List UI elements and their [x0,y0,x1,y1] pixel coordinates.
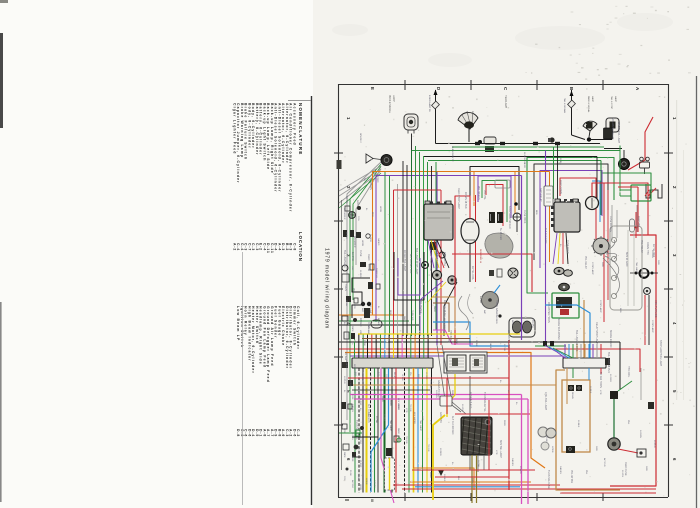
svg-text:DOME: DOME [475,340,477,347]
svg-text:HTR COIL: HTR COIL [627,366,630,378]
bulkhead connector bar [352,358,433,368]
svg-text:TO IGN: TO IGN [409,404,411,412]
green connector [631,185,651,201]
left rail vertical [341,200,343,470]
svg-text:HTR: HTR [599,390,601,395]
svg-text:COIL: COIL [447,338,449,344]
svg-text:ALT FLD: ALT FLD [603,458,606,467]
junction cluster [572,135,586,140]
svg-text:FUSE PARK: FUSE PARK [523,210,526,224]
svg-text:16 ORG: 16 ORG [351,432,353,440]
svg-text:W/S WIPER: W/S WIPER [413,412,415,424]
left rail extra components [345,206,350,211]
olive pair to bottom [471,455,473,503]
bullet connector on line [549,137,554,142]
connector pair [489,212,495,223]
svg-text:FUSE: FUSE [359,250,362,257]
svg-text:STOP LAMP: STOP LAMP [599,300,602,313]
module 2 ears [555,199,560,202]
svg-text:FUSE: FUSE [351,456,353,462]
svg-text:TAIL & SIGNAL: TAIL & SIGNAL [563,98,566,114]
svg-text:HORN: HORN [349,380,351,387]
red crossover [452,254,532,292]
svg-text:18 PUR: 18 PUR [653,440,655,448]
svg-text:HORN: HORN [359,484,361,491]
nomenclature table rules [311,96,313,505]
svg-text:FUSE: FUSE [363,340,365,346]
wires into bar top [354,334,356,358]
svg-text:HORN: HORN [551,446,553,453]
svg-text:FEED DOME: FEED DOME [559,180,562,195]
svg-text:BRN: BRN [371,212,373,217]
svg-text:GRD: GRD [595,446,597,451]
lamp to green corner [411,134,413,151]
cable curves [458,296,468,330]
svg-text:FEED: FEED [429,472,431,478]
tan long horizontal [352,384,556,386]
svg-text:TAIL LAMP STOP LAMP: TAIL LAMP STOP LAMP [415,248,418,275]
svg-text:COIL: COIL [357,216,359,222]
yellow feed [447,374,455,417]
svg-text:TAIL LAMP: TAIL LAMP [361,372,364,383]
zone ticks [334,80,673,501]
marks below border [345,499,349,501]
svg-text:PNL 18 RED: PNL 18 RED [429,380,432,394]
svg-text:FUSE: FUSE [349,470,351,476]
svg-text:18 RED: 18 RED [439,448,441,456]
svg-text:A-2: A-2 [232,243,236,251]
horn [608,438,620,450]
harness diagonals into left rail [347,162,381,420]
svg-text:18 PUR: 18 PUR [343,376,345,384]
yellow long horizontal [358,333,520,335]
svg-text:GAGES: GAGES [559,466,562,474]
red loops lower center [348,377,509,379]
spark plug wires [605,240,615,252]
wires out of bar bottom [354,368,356,493]
steering column connector [461,417,492,455]
svg-text:GAGES: GAGES [351,404,354,412]
svg-text:GAGES TAIL LAMP: GAGES TAIL LAMP [617,122,620,143]
svg-text:ALT FLD GRD: ALT FLD GRD [544,228,547,244]
svg-text:TO IGN HORN: TO IGN HORN [599,372,602,388]
svg-text:HEADLAMP: HEADLAMP [504,95,507,109]
svg-text:STOP LAMP: STOP LAMP [651,320,654,333]
svg-text:PARK: PARK [403,316,406,322]
left paper edge artifact [0,33,3,128]
svg-text:W/S WIPER: W/S WIPER [443,318,445,330]
harness verticals left [384,172,386,336]
svg-text:16 ORG PNL: 16 ORG PNL [443,252,446,267]
svg-text:HORN GAGES: HORN GAGES [495,300,498,317]
svg-text:STOP LAMP: STOP LAMP [591,262,594,275]
svg-text:BRN: BRN [417,374,419,379]
svg-text:TAIL LAMP: TAIL LAMP [389,420,392,431]
engine blob [485,233,513,258]
svg-text:16 BLK: 16 BLK [577,420,579,428]
ammeter [586,197,599,210]
tan loop harness [556,370,620,490]
regulator connector lugs [432,270,441,279]
red bottom join [560,492,656,494]
red riser to green connector [635,212,637,238]
svg-text:D: D [436,87,441,90]
horizontal runs y315-325 [339,314,404,316]
border grommet blob [337,160,342,169]
svg-text:FEED PNL: FEED PNL [637,216,640,228]
brown tan jogs [433,297,455,330]
wiper motor circle [482,292,499,309]
svg-text:B: B [569,87,574,90]
wire up arrow line D zone [435,90,437,144]
staircase wire [352,278,370,318]
svg-text:B RED LAMP FD: B RED LAMP FD [428,95,431,112]
svg-text:GRD: GRD [343,428,345,433]
red riser mid [475,195,477,282]
svg-text:GRD HTR: GRD HTR [439,412,442,423]
ladder box left of module2 [544,186,553,206]
svg-text:W/S WIPER RELAY: W/S WIPER RELAY [611,118,614,140]
fuse capsule [630,219,635,232]
svg-text:GRD RELAY: GRD RELAY [539,188,542,202]
svg-text:RELAY: RELAY [393,372,396,379]
top cap bar2 right [605,358,610,365]
svg-text:FEED FUSE: FEED FUSE [624,462,627,476]
svg-text:18 TAN: 18 TAN [477,460,480,468]
svg-text:PARK: PARK [433,306,436,312]
svg-text:GRD: GRD [471,478,473,483]
svg-text:TO IGN: TO IGN [367,264,369,272]
nested harness loops B [527,158,614,294]
wire drops to module area [545,151,547,346]
svg-text:16 YEL: 16 YEL [461,404,463,412]
svg-text:GRD: GRD [657,260,659,265]
red box around module 2 [560,178,596,240]
magenta cross routes [350,394,522,396]
wire up arrow line B zone [571,90,573,135]
svg-text:TAIL LAMP 16 ORG: TAIL LAMP 16 ORG [575,330,578,351]
svg-text:HORN: HORN [365,478,367,485]
green stub bottom left [339,432,362,434]
blue run right [545,305,590,358]
svg-text:LAMP: LAMP [614,96,617,102]
ring component [644,288,651,295]
svg-text:HORN: HORN [379,206,381,213]
black L routes bottom left [352,456,361,458]
svg-text:BRAKE W/S WIPER: BRAKE W/S WIPER [557,318,560,340]
svg-text:PNL 18 TAN: PNL 18 TAN [570,470,573,483]
svg-text:TAIL & STOP: TAIL & STOP [610,96,613,110]
svg-text:W/S WIPER: W/S WIPER [353,364,355,376]
long red right bus [610,235,656,486]
brown horizontal [362,338,470,340]
connector blocks right of headlamp [484,137,496,144]
svg-text:18 RED: 18 RED [359,318,362,327]
module 2 fan [553,233,557,264]
svg-text:PARK: PARK [455,338,458,344]
svg-text:16 ORG 16 YEL: 16 ORG 16 YEL [443,300,446,318]
svg-text:HTR: HTR [405,408,407,413]
svg-text:E: E [370,87,375,90]
black segment y390 [352,389,430,391]
red vertical right engine [637,187,639,232]
svg-text:ALT FLD ALT FLD: ALT FLD ALT FLD [409,254,412,273]
trident connector [640,157,644,161]
svg-text:16 ORG: 16 ORG [425,372,427,380]
svg-text:18 TAN 18 TAN: 18 TAN 18 TAN [464,192,467,209]
svg-text:18 RED: 18 RED [519,466,521,474]
svg-text:RELAY STOP LAMP: RELAY STOP LAMP [595,322,598,344]
orange reroute [414,368,475,490]
svg-text:BRN: BRN [535,210,537,215]
dark ring component right [619,159,630,170]
bottom right horizontals from harness [393,484,560,486]
svg-text:PARK: PARK [397,404,400,410]
svg-text:LOCATION: LOCATION [298,232,303,262]
park & signal lamp icon [404,114,418,130]
svg-text:1979 model wiring diagram: 1979 model wiring diagram [324,248,330,329]
ring connectors mid [422,262,429,269]
svg-text:FEED: FEED [381,396,383,402]
svg-text:TAIL LAMP: TAIL LAMP [367,324,370,335]
svg-text:GAGES: GAGES [357,384,360,392]
left rail components [349,212,356,219]
svg-text:ALT FLD: ALT FLD [359,436,362,445]
svg-text:BRN TAIL LAMP: BRN TAIL LAMP [499,440,502,458]
orange-purple cascade from left [373,172,550,316]
svg-text:14 GRN: 14 GRN [369,234,371,242]
svg-text:16 YEL: 16 YEL [345,196,348,204]
fuse pill [371,320,382,328]
svg-text:TURN SIG: TURN SIG [375,268,377,278]
svg-text:ALT FLD 18 RED: ALT FLD 18 RED [451,416,454,435]
svg-text:WIPER: WIPER [479,296,481,304]
svg-text:HORN: HORN [344,284,347,291]
module 2 connector lugs [554,267,564,274]
small white box [440,396,452,406]
svg-text:HTR: HTR [373,392,375,397]
svg-text:16 YEL COIL: 16 YEL COIL [471,266,474,281]
svg-text:18 TAN: 18 TAN [401,374,404,381]
svg-text:18 PUR: 18 PUR [359,460,361,468]
svg-text:BAT: BAT [483,310,486,315]
svg-text:RELAY: RELAY [345,300,348,307]
svg-text:PNL RELAY: PNL RELAY [640,240,643,253]
svg-text:LAMP: LAMP [591,96,594,102]
svg-text:PNL PNL: PNL PNL [483,190,486,201]
svg-text:14 GRN: 14 GRN [345,360,347,368]
svg-text:ALT FLD: ALT FLD [351,480,354,489]
svg-text:16 BLK: 16 BLK [589,386,591,394]
svg-text:W/S WIPER PNL: W/S WIPER PNL [507,330,510,349]
red top link [394,189,442,191]
diag approaches to bar2 [545,346,565,359]
svg-text:GAGES: GAGES [377,238,380,246]
svg-text:D-8: D-8 [236,429,240,437]
regulator fan wires [428,240,434,268]
svg-text:FUSE 16 ORG: FUSE 16 ORG [609,216,612,232]
svg-text:STOP LAMP 18 RED: STOP LAMP 18 RED [508,206,511,229]
svg-text:16 ORG: 16 ORG [609,374,611,382]
extra verticals right mid [611,205,613,240]
svg-text:STOP LAMP: STOP LAMP [369,302,372,314]
svg-text:GRD: GRD [645,466,647,471]
module ears [425,201,430,204]
svg-text:18 RED: 18 RED [376,174,379,183]
svg-text:BRN: BRN [511,320,513,325]
magenta feeds [521,395,523,505]
alternator [461,219,479,244]
module 2 [554,202,580,232]
svg-text:BRN: BRN [389,310,391,315]
ground mark [438,470,444,476]
dark connector block [604,128,613,139]
scan smudges [332,13,673,67]
blue runs center [494,285,500,293]
svg-text:COIL TURN SIG: COIL TURN SIG [654,300,657,318]
svg-text:BRAKE 14 GRN: BRAKE 14 GRN [609,330,612,348]
svg-text:FUSE ALT FLD: FUSE ALT FLD [469,392,472,409]
svg-text:LAMP: LAMP [392,95,395,102]
svg-text:W/S WIPER: W/S WIPER [353,236,355,248]
svg-text:B+ 18 RED: B+ 18 RED [499,228,502,240]
svg-text:GRD: GRD [601,262,603,267]
svg-text:18 TAN: 18 TAN [503,344,506,352]
svg-text:GRD: GRD [353,304,355,309]
svg-text:PNL RELAY: PNL RELAY [584,256,587,269]
svg-text:BRN 14 GRN: BRN 14 GRN [625,252,628,267]
svg-text:PARK & SIGNAL: PARK & SIGNAL [388,95,391,114]
svg-text:TURN SIG FUSE: TURN SIG FUSE [547,470,550,489]
svg-text:18 GRN LINE FD: 18 GRN LINE FD [523,152,525,169]
svg-text:FEED: FEED [367,254,370,261]
choke cap [648,402,654,409]
svg-text:GRD: GRD [356,200,359,206]
svg-text:TAIL LAMP: TAIL LAMP [635,262,638,273]
signal lamp fan right [583,121,597,131]
svg-text:PARK & SIGNAL: PARK & SIGNAL [587,96,590,113]
svg-text:16 ORG: 16 ORG [351,252,354,261]
svg-text:FEED: FEED [389,400,391,406]
svg-text:GAGES: GAGES [511,458,514,466]
green right of module1 [435,162,437,330]
svg-text:TURN SIG 16 YEL: TURN SIG 16 YEL [483,392,486,413]
fusible link box [385,458,395,490]
engine outline art [610,226,642,310]
svg-text:FEED STOP LAMP: FEED STOP LAMP [457,188,460,209]
svg-text:18 RED: 18 RED [369,374,371,382]
round connector below [559,283,570,291]
clamp component [640,269,649,278]
svg-text:TURN SIG: TURN SIG [411,310,413,321]
svg-text:16 BLK: 16 BLK [443,474,445,482]
splice triangle [366,154,373,163]
heater switch green box [552,293,579,318]
svg-text:TAIL LAMP: TAIL LAMP [419,420,422,431]
cable circles [538,427,548,437]
heater motor component [509,318,535,337]
svg-text:TAIL LAMP: TAIL LAMP [343,250,346,262]
svg-text:TO IGN: TO IGN [405,436,407,444]
svg-text:STOP LAMP TAIL LAMP: STOP LAMP TAIL LAMP [659,340,662,367]
headlamp shell left [458,112,478,129]
svg-text:RELAY: RELAY [349,212,352,219]
ignition coil [508,268,518,278]
svg-text:TAIL LAMP FUSE: TAIL LAMP FUSE [429,252,432,271]
svg-text:PNL 18 RED: PNL 18 RED [477,186,480,200]
svg-text:HTR: HTR [495,450,497,455]
horizontal bundle lower [339,341,620,343]
magenta jog [433,330,473,344]
blue dogleg [371,368,389,492]
ignition switch detail box [444,352,487,373]
svg-text:RELAY: RELAY [571,392,574,400]
svg-text:18 TAN: 18 TAN [369,182,372,190]
purple-black u loops [398,258,420,295]
svg-text:FUSE: FUSE [545,436,547,442]
svg-text:TAIL LAMP 18 PUR: TAIL LAMP 18 PUR [607,352,610,373]
svg-text:SPLICE 2: SPLICE 2 [359,133,361,143]
green corner to connector box [601,161,651,186]
svg-text:ALT FLD 18 RED: ALT FLD 18 RED [435,250,438,269]
connector bar 2 [563,358,606,368]
svg-text:HTR: HTR [429,420,431,425]
scan speckle [340,6,694,497]
svg-text:GAGES: GAGES [489,342,492,350]
wires out column bottom [469,455,471,470]
headlamp junction [468,129,470,143]
svg-text:W/S WIPER: W/S WIPER [343,208,345,220]
svg-text:HORN: HORN [361,240,363,247]
svg-text:18 RED: 18 RED [495,316,497,324]
red feed top right [628,117,653,170]
svg-text:16 BLK: 16 BLK [383,414,385,422]
svg-text:18 RED: 18 RED [359,270,361,278]
svg-text:FEED: FEED [357,474,359,480]
headlight switch cluster [386,448,392,456]
svg-text:BRAKE: BRAKE [377,318,380,326]
svg-text:FEED: FEED [343,262,345,268]
wires resume below lugs [420,281,443,336]
main horizontal runs [436,143,601,145]
svg-text:14 GRN: 14 GRN [435,390,437,398]
distributor [593,238,609,254]
lamp bracket with red leads [646,184,662,198]
splice grommet dark circle [381,154,392,165]
svg-text:FUSE: FUSE [351,394,353,400]
voltage regulator module [424,204,453,240]
svg-text:18 PUR: 18 PUR [359,398,361,406]
svg-text:PARK: PARK [343,452,346,458]
svg-text:18 RED TAIL LAMP: 18 RED TAIL LAMP [403,250,406,271]
svg-text:HTR: HTR [351,266,353,271]
svg-text:PARK: PARK [397,428,400,434]
svg-text:18 TAN: 18 TAN [375,416,378,424]
svg-text:RED FEED 16: RED FEED 16 [479,249,481,264]
square lamp right [606,118,619,132]
svg-text:FEED: FEED [451,390,453,396]
nested harness loops A [470,167,519,283]
svg-text:HTR PNL: HTR PNL [531,318,534,329]
svg-text:W/S WIPER HORN: W/S WIPER HORN [547,302,550,323]
svg-text:14 GRN: 14 GRN [639,430,641,438]
svg-text:BRN: BRN [619,308,621,313]
svg-text:14 GRN: 14 GRN [651,250,653,258]
svg-text:16 YEL: 16 YEL [621,470,623,478]
svg-text:16 BLK: 16 BLK [345,232,347,239]
tan drop [583,300,585,358]
svg-text:GAGES: GAGES [373,480,376,488]
